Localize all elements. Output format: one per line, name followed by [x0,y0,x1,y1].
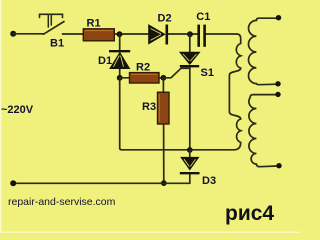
wire R3 top lead [162,78,164,92]
node: left input terminal bottom [10,180,16,186]
switch B1 plunger stems [47,14,49,27]
svg-text:R2: R2 [136,62,150,74]
wire D3 cathode to bottom rail [189,175,191,184]
svg-text:D3: D3 [202,175,216,187]
diode D2 (pointing right, cathode bar) [149,25,167,45]
node: junction R2 / R3 / S1 gate [161,75,167,81]
svg-text:repair-and-servise.com: repair-and-servise.com [8,196,116,208]
resistor R1 [83,29,114,41]
resistor R3 [158,92,170,124]
node: junction D2 / S1 anode [187,31,193,37]
diode D1 (pointing up, cathode bar on top) [109,51,130,68]
thyristor S1 (pointing down, cathode bar, gate) [180,52,200,66]
wire from D1/R2 node down and right to S1 cathode node [120,78,190,150]
node: left input terminal top [10,31,16,37]
node: junction D1 / R2 [117,75,123,81]
wire R2 left lead [120,77,130,79]
node: secondary terminal 2 [275,81,280,86]
capacitor C1 [199,25,205,47]
resistor R2 [130,73,160,83]
wire D3 anode [189,150,191,157]
svg-text:B1: B1 [50,37,64,49]
svg-text:R1: R1 [87,18,101,30]
node: junction S1 cathode / D3 / primary return [187,147,193,153]
wire D1 vertical from top rail to D1 cathode [119,34,121,51]
wire top-left from terminal to switch B1 [13,33,44,35]
node: secondary terminal 3 [275,92,280,97]
wire from switch B1 to resistor R1 [63,33,84,35]
node: secondary terminal 1 [276,15,281,20]
switch B1 actuator cap [40,14,63,17]
transformer secondary winding lower section [249,95,278,167]
node: junction R3 / bottom rail [161,180,167,186]
transformer secondary winding upper section [249,18,278,85]
wire D1 anode down to R2 node [119,68,121,78]
node: secondary terminal 4 [276,163,281,168]
node: junction R1 / D1 [117,31,123,37]
wire R3 bottom lead down to bottom rail [163,124,165,183]
svg-text:C1: C1 [196,11,210,23]
svg-text:~220V: ~220V [1,104,34,116]
wire R2 right lead to gate node [159,77,164,79]
wire from C1 to transformer primary [205,33,236,35]
wire S1 cathode down to D3 node [189,67,191,151]
wire bottom rail [13,182,190,184]
diode D3 (pointing down, cathode bar at bottom) [180,158,200,174]
transformer primary winding [191,34,241,150]
wire S1 anode from top node [189,34,191,52]
svg-text:рис4: рис4 [225,202,274,225]
wire S1 gate [163,68,188,78]
wire from D2 cathode to C1 (through node) [168,33,198,35]
svg-text:R3: R3 [142,101,156,113]
svg-text:D1: D1 [98,55,112,67]
wire from R1 to diode D2 (through node) [114,33,149,35]
svg-text:D2: D2 [158,13,172,25]
switch B1 blade [44,22,65,35]
svg-text:S1: S1 [201,67,214,79]
